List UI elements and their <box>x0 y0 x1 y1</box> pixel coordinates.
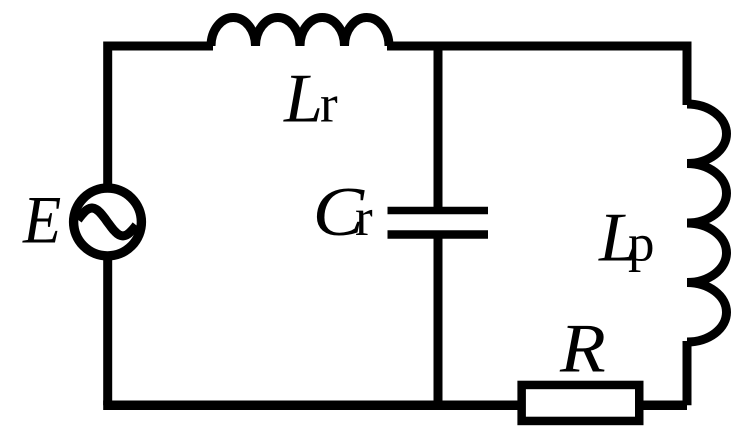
svg-text:R: R <box>559 309 606 387</box>
svg-text:r: r <box>320 76 338 134</box>
svg-text:E: E <box>22 183 61 258</box>
svg-text:r: r <box>355 189 373 247</box>
svg-text:p: p <box>628 215 655 273</box>
svg-text:L: L <box>283 61 323 138</box>
